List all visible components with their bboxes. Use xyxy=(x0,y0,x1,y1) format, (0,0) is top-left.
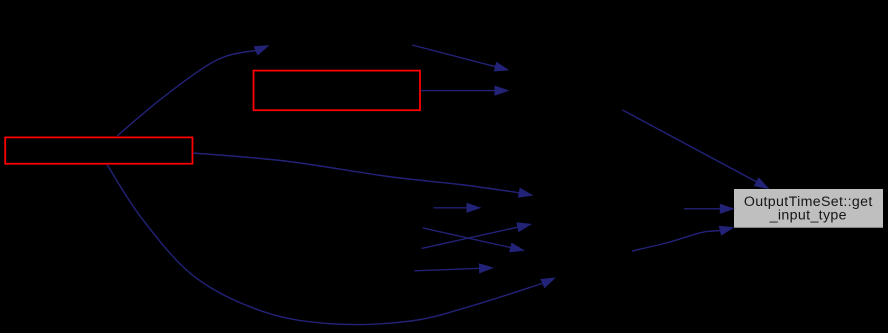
svg-text:_input_type: _input_type xyxy=(769,207,847,223)
